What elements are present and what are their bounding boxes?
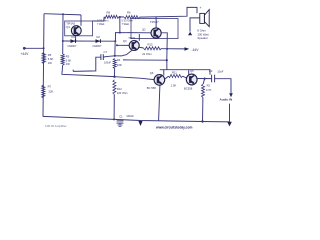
svg-text:C7: C7 — [104, 50, 108, 54]
wire Q1 collector drop — [80, 15, 82, 26]
svg-text:D1: D1 — [72, 35, 76, 39]
label R12 — [117, 87, 122, 91]
label R10 — [148, 43, 153, 47]
wire diode row down to C7 node — [114, 41, 116, 56]
label Q6 BC558 — [147, 86, 156, 90]
terminal audio input arrow — [229, 93, 233, 97]
transistor Q6 symbol — [154, 75, 165, 86]
resistor R3 — [61, 54, 64, 65]
diode D2 1N4007 — [96, 39, 101, 43]
label R2 — [207, 84, 211, 88]
label Q1 — [66, 25, 70, 29]
label R3 — [66, 55, 70, 59]
transistor Q2 symbol — [151, 28, 161, 38]
speaker LS1 — [200, 10, 209, 27]
svg-text:220 Ohm: 220 Ohm — [117, 91, 128, 95]
wire audio ground lead — [229, 104, 231, 122]
wire C7 left lead — [73, 57, 101, 71]
svg-text:R2: R2 — [207, 84, 211, 88]
label D1 — [72, 35, 76, 39]
label R5 value 1W — [48, 61, 52, 65]
resistor R11 — [168, 75, 182, 78]
node Q1 base diode junction — [75, 40, 77, 42]
label R7 value 22K — [49, 89, 54, 93]
wire feedback mid — [123, 59, 167, 61]
node Q2 base wire junction — [119, 32, 121, 34]
node R2 ground junction — [201, 120, 203, 122]
label speaker 100 Watt — [197, 32, 208, 36]
svg-text:R5: R5 — [48, 53, 52, 57]
svg-text:-44V: -44V — [192, 48, 200, 52]
wire Q3 base — [117, 44, 129, 46]
svg-text:Speaker: Speaker — [197, 36, 207, 40]
label R5 value 5.6K — [48, 57, 54, 61]
wire R2 top lead — [203, 79, 204, 84]
svg-text:www.circuitstoday.com: www.circuitstoday.com — [155, 125, 193, 129]
svg-text:R4: R4 — [117, 58, 121, 62]
svg-text:1W: 1W — [66, 62, 70, 66]
resistor R8 0.33 Ohm — [104, 15, 119, 18]
node R4 R12 junction — [113, 76, 115, 78]
label R8 value line1 — [97, 18, 108, 22]
svg-text:TIP147: TIP147 — [150, 20, 159, 24]
label R5 — [48, 53, 52, 57]
node +44V terminal dot — [23, 47, 26, 50]
wire diode row rise to Q2 base — [115, 33, 150, 42]
svg-text:R8: R8 — [107, 11, 111, 15]
resistor R2 4.7K — [202, 84, 205, 98]
wire Q2 collector — [161, 33, 167, 60]
wire R10 to -44V — [162, 48, 185, 50]
transistor Q2 TIP147 package box — [131, 19, 178, 39]
wire collector bus right — [167, 70, 210, 75]
label www.circuitstoday.com — [155, 125, 193, 129]
svg-text:+44V: +44V — [21, 52, 30, 56]
terminal audio ground arrow — [227, 122, 232, 127]
wire Q6 emitter down — [159, 85, 160, 121]
terminal speaker arrow up — [188, 32, 192, 36]
svg-text:R12: R12 — [117, 87, 122, 91]
wire top rail to Q1 collector — [44, 14, 81, 15]
terminal -44V arrow — [185, 47, 190, 51]
label R11 value — [171, 83, 177, 87]
label C1 value 100uF — [126, 114, 134, 118]
transistor Q1 symbol — [71, 26, 81, 36]
label speaker Speaker — [197, 36, 207, 40]
label D1 value 1N4007 — [67, 44, 77, 48]
node rail junction at +44V stub — [43, 47, 45, 49]
label TIP41 — [128, 36, 136, 40]
svg-text:C1: C1 — [119, 114, 123, 118]
wire +44V rail left vertical — [43, 14, 44, 117]
label Q3 — [123, 39, 127, 43]
svg-text:10uF: 10uF — [217, 69, 223, 73]
label C1 — [119, 114, 123, 118]
svg-text:C2: C2 — [209, 69, 213, 73]
label R10 value — [142, 52, 152, 56]
wire Q6 to R11 — [165, 76, 169, 79]
svg-text:Q2: Q2 — [142, 28, 146, 32]
label R3 value 5.6K — [66, 58, 72, 62]
label C2 — [209, 69, 213, 73]
wire junction R8 R6 — [119, 16, 124, 18]
transistor Q3 symbol — [129, 41, 139, 51]
wire R11 to Q5 — [183, 76, 187, 78]
wire output node drop — [119, 17, 121, 33]
wire Q3 emitter down — [115, 50, 132, 56]
svg-text:22 Ohm: 22 Ohm — [142, 52, 152, 56]
label R2 value 4.7K — [206, 88, 212, 92]
capacitor C7 — [101, 54, 103, 60]
wire Q6 base — [115, 77, 155, 80]
svg-text:5.6K: 5.6K — [48, 57, 54, 61]
wire Q1 emitter to R8 — [93, 17, 105, 21]
node Q3 base / C7 junction — [116, 44, 118, 46]
wire stub at C7 branch end — [72, 70, 74, 72]
capacitor C1 — [117, 121, 124, 123]
node output junction R8/R6 — [119, 16, 121, 18]
node Q5 base / R2 / C2 junction — [204, 78, 206, 80]
svg-text:100nF: 100nF — [104, 62, 112, 65]
svg-text:Q5: Q5 — [190, 69, 194, 73]
wire C2 to audio input — [215, 79, 231, 94]
label C7 value — [104, 62, 112, 65]
label Audio IN — [220, 97, 233, 101]
svg-text:Q3: Q3 — [123, 39, 127, 43]
wire Q5 collector stub — [188, 70, 190, 75]
svg-text:7 Watt: 7 Watt — [97, 22, 105, 26]
label R6 — [127, 11, 131, 15]
label R11 — [172, 71, 177, 75]
wire ground rail bottom — [43, 116, 230, 122]
node diode row right junction — [114, 40, 116, 42]
label TIP147 — [150, 20, 159, 24]
svg-text:1N4007: 1N4007 — [67, 44, 77, 48]
svg-text:BC 558: BC 558 — [147, 86, 156, 90]
wire Q5 base right — [197, 78, 212, 80]
wire C7 right lead — [103, 56, 115, 57]
svg-text:1N4007: 1N4007 — [92, 44, 102, 48]
svg-text:100 W Amplifier: 100 W Amplifier — [45, 124, 67, 128]
label R7 — [48, 85, 52, 89]
label R8 value line2 — [97, 22, 105, 26]
label speaker 8 Ohm — [197, 29, 206, 33]
label C7 — [104, 50, 108, 54]
svg-text:7 Watt: 7 Watt — [122, 22, 130, 26]
svg-text:4.7K: 4.7K — [206, 88, 212, 92]
resistor R4 22R — [113, 59, 116, 69]
label D2 value 1N4007 — [92, 44, 102, 48]
wire +44V stub — [24, 47, 44, 49]
svg-text:Q6: Q6 — [150, 71, 154, 75]
label R4 — [117, 58, 121, 62]
wire R2 bottom lead — [202, 98, 204, 122]
svg-text:TIP41: TIP41 — [128, 36, 136, 40]
label speaker plus — [200, 6, 202, 10]
svg-text:Audio IN: Audio IN — [220, 97, 233, 101]
label R6 value line1 — [122, 18, 133, 22]
resistor R5 — [42, 53, 45, 64]
label R12 value 220 Ohm — [117, 91, 128, 95]
wire output row to speaker — [140, 7, 198, 17]
wire Q6 collector stub — [163, 70, 165, 76]
node junction top rail / R3 branch — [62, 13, 64, 15]
node R12 ground junction — [113, 118, 115, 120]
svg-text:22K: 22K — [49, 89, 54, 93]
resistor R12 220 Ohm — [113, 80, 116, 95]
transistor Q1 TIP142 package box — [65, 21, 93, 36]
node diode row junction — [62, 40, 64, 42]
label TIP142 — [66, 22, 75, 26]
resistor R10 22 Ohm — [144, 47, 162, 50]
svg-text:Q1: Q1 — [66, 25, 70, 29]
resistor R7 — [42, 85, 45, 98]
svg-text:R7: R7 — [48, 85, 52, 89]
label R3 value 1W — [66, 62, 70, 66]
diode D1 1N4007 — [71, 39, 76, 43]
node mid wire junction — [166, 59, 168, 61]
label R8 — [107, 11, 111, 15]
svg-text:BC558: BC558 — [184, 86, 193, 90]
label R6 value line2 — [122, 22, 130, 26]
svg-text:22R: 22R — [117, 63, 122, 67]
label -44V — [192, 48, 200, 52]
ground C1 — [118, 123, 123, 126]
svg-text:100uF: 100uF — [126, 114, 134, 118]
label D2 — [97, 35, 101, 39]
svg-text:1W: 1W — [48, 61, 52, 65]
label Q2 — [142, 28, 146, 32]
label R4 value 22R — [117, 63, 122, 67]
svg-text:R6: R6 — [127, 11, 131, 15]
node C7 R4 emitter junction — [114, 55, 116, 57]
label Q6 — [150, 71, 154, 75]
wire R4 to junction — [114, 69, 116, 77]
label +44V — [21, 52, 30, 56]
wire Q3 to R10 — [139, 46, 144, 49]
label title 100 W Amplifier — [45, 124, 67, 128]
svg-text:R3: R3 — [66, 55, 70, 59]
svg-text:R11: R11 — [172, 71, 177, 75]
wire speaker return — [190, 18, 200, 32]
wire R12 to ground rail — [113, 95, 115, 120]
transistor Q5 symbol — [186, 74, 197, 85]
resistor R6 0.33 Ohm — [124, 16, 140, 19]
label Q5 BC558 — [184, 86, 193, 90]
wire Q2 emitter up — [155, 17, 157, 28]
wire Q1 base drop to diode row — [75, 36, 77, 41]
wire R3 branch vertical — [62, 14, 64, 54]
node R10 wire crossing — [166, 48, 168, 50]
capacitor C2 — [212, 75, 215, 83]
svg-text:TIP142: TIP142 — [66, 22, 75, 26]
ground rail arrow — [138, 121, 142, 126]
svg-text:1.5K: 1.5K — [171, 83, 177, 87]
label Q5 — [190, 69, 194, 73]
wire collector bus — [160, 60, 167, 69]
wire diode row — [63, 40, 116, 42]
svg-text:+: + — [200, 6, 202, 10]
wire Q3 collector up — [138, 34, 140, 41]
svg-text:R10: R10 — [148, 43, 153, 47]
svg-text:0.33 Ohm: 0.33 Ohm — [97, 18, 108, 22]
wire R3 bottom to bias node — [62, 65, 115, 77]
svg-text:5.6K: 5.6K — [66, 58, 72, 62]
label C2 value 10uF — [217, 69, 223, 73]
svg-text:D2: D2 — [97, 35, 101, 39]
